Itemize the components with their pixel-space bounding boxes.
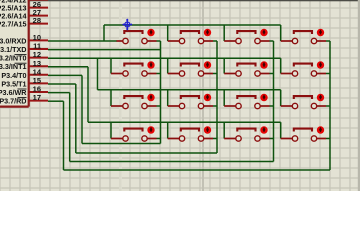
pin number 12 bbox=[33, 50, 41, 59]
pin 11 stub bbox=[29, 48, 48, 50]
button R4C4 actuator dot bbox=[317, 126, 324, 133]
pin 15 stub bbox=[29, 82, 48, 84]
svg-text:17: 17 bbox=[33, 93, 41, 102]
wire row-2 bus from pin12 bbox=[48, 57, 281, 59]
push button R4C2 bbox=[168, 129, 217, 142]
svg-text:P2.7/A15: P2.7/A15 bbox=[0, 20, 27, 29]
wire column-4 bottom return bbox=[64, 169, 331, 171]
pin 27 stub bbox=[29, 15, 48, 17]
button R4C1 actuator dot bbox=[147, 126, 154, 133]
push button R3C3 bbox=[224, 96, 273, 109]
pin name P2.6/A14 bbox=[0, 12, 27, 21]
button R3C2 actuator dot bbox=[204, 94, 211, 101]
wire row-3 drop to R3C2 bbox=[167, 90, 169, 106]
pin name P3.7/RD bbox=[0, 97, 27, 106]
wire P3.3 pin13 feeder bbox=[48, 67, 88, 122]
button R2C3 actuator dot bbox=[260, 61, 267, 68]
wire P3.0 riser to row-1 bus bbox=[103, 25, 105, 41]
button R1C4 actuator dot bbox=[317, 29, 324, 36]
pin number 10 bbox=[33, 33, 41, 42]
wire column-4 vertical bbox=[329, 41, 331, 170]
pin number 17 bbox=[33, 93, 41, 102]
wire P3.7 pin17 feeder bbox=[48, 101, 64, 170]
wire column-1 bottom return bbox=[82, 143, 161, 145]
pin name P3.1/TXD bbox=[0, 45, 27, 54]
pin number 15 bbox=[33, 76, 41, 85]
pin name P3.2/INT0 bbox=[0, 54, 27, 63]
pin name P3.3/INT1 bbox=[0, 62, 27, 71]
wire row-4 drop to R4C1 bbox=[110, 122, 112, 138]
pin 25 stub bbox=[29, 0, 48, 1]
pin name P3.0/RXD bbox=[0, 36, 27, 45]
wire row-2 drop to R2C3 bbox=[223, 58, 225, 73]
button R2C1 actuator dot bbox=[147, 61, 154, 68]
pin number 16 bbox=[33, 85, 41, 94]
pin name P2.5/A13 bbox=[0, 4, 27, 13]
pin number 25 bbox=[33, 0, 41, 1]
button R1C1 actuator dot bbox=[147, 29, 154, 36]
wire P3.4 pin14 feeder bbox=[48, 75, 82, 143]
wire row-4 drop to R4C3 bbox=[223, 122, 225, 138]
button R1C3 actuator dot bbox=[260, 29, 267, 36]
pin number 13 bbox=[33, 59, 41, 68]
pin 12 stub bbox=[29, 57, 48, 59]
wire row-1 drop to R1C4 bbox=[280, 25, 282, 41]
wire P3.1 pin11 across to column-1 bbox=[48, 49, 161, 51]
wire P3.6 pin16 feeder bbox=[48, 93, 70, 162]
pin number 14 bbox=[33, 67, 42, 76]
button R3C3 actuator dot bbox=[260, 94, 267, 101]
push button R2C4 bbox=[281, 64, 330, 77]
pin number 26 bbox=[33, 0, 41, 9]
push button R2C2 bbox=[168, 64, 217, 77]
push button R4C1 bbox=[111, 129, 161, 142]
wire row-1 drop to R1C2 bbox=[167, 25, 169, 41]
wire column-2 bottom return bbox=[76, 152, 217, 154]
pin name P3.5/T1 bbox=[1, 79, 26, 88]
wire P3.0 pin10 to R1C1 left lead bbox=[48, 40, 117, 42]
pin 14 stub bbox=[29, 74, 48, 76]
wire row-2 drop to R2C4 bbox=[280, 58, 282, 73]
pin 16 stub bbox=[29, 91, 48, 93]
push button R1C1 bbox=[117, 31, 161, 44]
pin name P3.6/WR bbox=[0, 88, 27, 97]
pin name P2.4/A12 bbox=[0, 0, 27, 5]
button R4C2 actuator dot bbox=[204, 126, 211, 133]
wire P3.5 pin15 feeder bbox=[48, 84, 76, 153]
pin number 28 bbox=[33, 16, 41, 25]
wire row-2 drop to R2C2 bbox=[167, 58, 169, 73]
button R4C3 actuator dot bbox=[260, 126, 267, 133]
button R3C4 actuator dot bbox=[317, 94, 324, 101]
wire row-4 drop to R4C4 bbox=[280, 122, 282, 138]
wire row-2 drop to R2C1 bbox=[110, 58, 112, 73]
blue origin marker on row-1 bus bbox=[122, 19, 132, 31]
pin number 27 bbox=[33, 8, 41, 17]
button R3C1 actuator dot bbox=[147, 94, 154, 101]
wire row-1 drop to R1C3 bbox=[223, 25, 225, 41]
pin 13 stub bbox=[29, 65, 48, 67]
wire row-3 feeder bbox=[97, 58, 99, 90]
push button R3C4 bbox=[281, 96, 330, 109]
wire column-3 vertical bbox=[273, 41, 275, 162]
wire row-3 drop to R3C3 bbox=[223, 90, 225, 106]
microcontroller U1 body (right edge, mostly off-screen left) bbox=[0, 0, 29, 107]
wire column-3 bottom return bbox=[70, 161, 274, 163]
wire row-3 bus bbox=[98, 89, 281, 91]
push button R1C2 bbox=[168, 31, 217, 44]
pin 28 stub bbox=[29, 23, 48, 25]
wire row-4 drop to R4C2 bbox=[167, 122, 169, 138]
push button R4C4 bbox=[281, 129, 330, 142]
button R2C2 actuator dot bbox=[204, 61, 211, 68]
wire row-3 drop to R3C4 bbox=[280, 90, 282, 106]
pin 26 stub bbox=[29, 7, 48, 9]
button R2C4 actuator dot bbox=[317, 61, 324, 68]
push button R2C3 bbox=[224, 64, 273, 77]
button R1C2 actuator dot bbox=[204, 29, 211, 36]
wire row-1 bus bbox=[104, 24, 281, 26]
wire column-2 vertical bbox=[216, 41, 218, 153]
pin 17 stub bbox=[29, 100, 48, 102]
svg-text:28: 28 bbox=[33, 16, 41, 25]
push button R4C3 bbox=[224, 129, 273, 142]
push button R3C1 bbox=[111, 96, 161, 109]
push button R1C3 bbox=[224, 31, 273, 44]
push button R1C4 bbox=[281, 31, 330, 44]
wire column-1 vertical bbox=[160, 41, 162, 144]
pin name P2.7/A15 bbox=[0, 20, 27, 29]
pin name P3.4/T0 bbox=[1, 71, 26, 80]
wire row-3 drop to R3C1 bbox=[110, 90, 112, 106]
pin number 11 bbox=[33, 42, 41, 51]
pin 10 stub bbox=[29, 39, 48, 41]
push button R3C2 bbox=[168, 96, 217, 109]
push button R2C1 bbox=[111, 64, 161, 77]
wire row-4 bus bbox=[88, 121, 281, 123]
